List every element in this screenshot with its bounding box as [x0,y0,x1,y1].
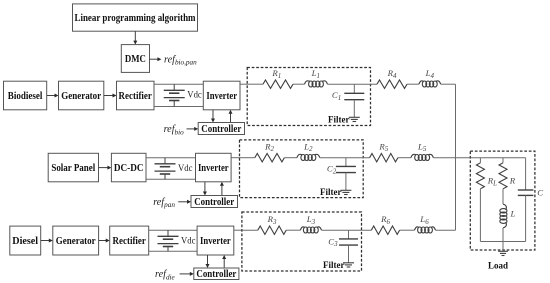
svg-text:Rectifier: Rectifier [119,90,153,102]
filter box 2 (dashed) [240,140,364,198]
wire: L5 to load (through bus node) [433,157,470,159]
inductor L3 [300,227,321,233]
svg-text:Load: Load [488,261,509,271]
resistor R1 [263,80,293,88]
filter box 1 (dashed) [247,68,370,126]
label: ref_bio,pan [164,54,197,66]
block: Linear programming algorithm [73,4,198,31]
label: ref_bio [164,124,185,136]
svg-text:R: R [509,176,516,186]
wire: load bottom rail [480,241,525,243]
label: C (load) [537,187,543,197]
capacitor C3 [339,230,358,263]
inductor L4 [419,81,441,87]
wire: Generator to Rectifier (arrow) [104,94,117,98]
wire: ref_pan to Controller (arrow) [178,200,191,204]
wire: R_L branch top [479,158,481,163]
ground (filter 2) [340,190,351,194]
resistor R5 [370,154,398,162]
wire: R_L branch bottom [479,189,481,242]
label: R_L [487,176,497,188]
wire: LP algorithm to DMC (arrow down) [133,31,137,44]
svg-text:Controller: Controller [194,197,234,208]
svg-text:Vdc: Vdc [187,89,202,100]
wire: Diesel to Generator (arrow) [41,239,53,243]
block U: DMC [121,45,149,73]
block: Controller (row 2) [191,196,238,208]
inductor L6 [415,227,436,233]
svg-text:Inverter: Inverter [198,162,229,174]
block: Generator (row 3) [53,226,99,255]
label: C3 [328,236,338,248]
svg-text:Linear programming algorithm: Linear programming algorithm [75,12,196,24]
label: C1 [332,90,341,102]
capacitor C (load) [518,158,534,242]
svg-text:Filter: Filter [320,188,342,198]
block: DC-DC [111,153,146,182]
label: Vdc (row 2) [178,163,193,174]
wire: Biodiesel to Generator (arrow) [47,94,59,98]
inductor L2 [297,154,320,160]
inductor L (load) [500,204,507,228]
wire: DC-DC to Inverter top (row 2) [146,157,196,159]
svg-text:Rectifier: Rectifier [113,235,147,247]
svg-text:Vdc: Vdc [181,235,196,246]
wire: R4 to L4 [407,83,419,85]
block: Inverter (row 1) [203,81,240,110]
resistor R4 [377,80,407,88]
ground (load) [498,251,508,255]
resistor R2 [255,154,285,162]
battery Vdc (row 2) [155,158,176,180]
wire: Rectifier to Inverter bottom (row 1) [154,106,203,108]
wire: Inverter to filter 3 [234,229,242,231]
svg-text:Inverter: Inverter [206,90,237,102]
block: Rectifier (row 1) [117,81,155,110]
svg-text:Biodiesel: Biodiesel [8,90,43,102]
label: Vdc (row 3) [181,235,196,246]
label: C2 [327,164,337,176]
inductor L1 [305,81,328,87]
wire: Generator to Rectifier (arrow, row 3) [99,239,110,243]
load box (dashed) [470,151,535,250]
wire: R5 to L5 [398,157,411,159]
block: Solar Panel [48,153,98,182]
wire: Rectifier to Inverter bottom (row 3) [149,250,197,252]
svg-text:Filter: Filter [323,261,345,271]
label: L4 [425,68,435,80]
wire: R branch top [502,158,504,163]
block: Inverter (row 2) [196,153,232,182]
wire: Solar Panel to DC-DC (arrow) [99,166,112,170]
wire: Controller to Inverter (row 1, up arrow) [229,110,233,123]
block: Biodiesel [4,81,47,110]
wire: DC-DC to Inverter bottom (row 2) [146,178,196,180]
label: ref_pan [153,197,175,209]
wire: ref_bio to Controller (arrow) [187,127,199,131]
wire: L6 to bus [436,229,456,231]
svg-text:C: C [537,187,543,197]
battery Vdc (row 1) [164,84,185,106]
wire: ground stem (load) [502,242,504,252]
wire: R3 to L3 [286,229,300,231]
wire: ref_die to Controller (arrow) [180,272,194,276]
wire: AC bus (vertical) [455,84,457,230]
wire: Inverter to filter 1 [240,83,247,85]
label: L3 [306,214,316,226]
wire: Controller to Inverter (row 2, up arrow) [220,182,224,196]
inductor L5 [411,154,434,160]
svg-text:Solar Panel: Solar Panel [51,162,95,174]
wire: R1 to L1 [293,83,305,85]
label: R6 [380,214,390,226]
svg-text:DC-DC: DC-DC [114,162,144,174]
label: Vdc (row 1) [187,89,202,100]
label: R2 [264,141,274,153]
svg-text:L: L [510,209,516,219]
label: R3 [267,214,277,226]
resistor R6 [371,226,399,234]
label: L5 [417,141,427,153]
label: R (load) [509,176,516,186]
svg-text:Diesel: Diesel [12,235,38,247]
wire: L3 to R6 (node with C3) [322,229,372,231]
label: ref_die [155,269,176,281]
block: Rectifier (row 3) [110,226,149,255]
wire: L branch bottom [502,228,504,242]
svg-text:Controller: Controller [196,269,236,280]
label: R4 [387,68,397,80]
wire: R6 to L6 [400,229,415,231]
wire: Rectifier to Inverter top (row 3) [149,229,197,231]
block: Inverter (row 3) [197,226,234,255]
resistor R (load) [499,163,507,189]
svg-text:DMC: DMC [125,54,146,65]
svg-text:Controller: Controller [201,124,241,135]
wire: Inverter to Controller (row 1, down arrow) [211,110,215,123]
capacitor C1 [344,84,364,117]
label: L6 [419,214,429,226]
block: Controller (row 1) [198,123,244,135]
battery Vdc (row 3) [158,230,179,251]
wire: Inverter to filter 2 [231,157,239,159]
label: R5 [378,141,388,153]
wire: load top rail [470,157,525,159]
svg-text:Vdc: Vdc [178,163,193,174]
wire: filter 1 input [247,83,263,85]
resistor R_L [476,163,484,189]
wire: Rectifier to Inverter top (row 1) [154,83,203,85]
block: Controller (row 3) [194,268,239,280]
svg-text:Inverter: Inverter [200,235,231,247]
label: R1 [271,68,281,80]
label: L1 [311,68,320,80]
svg-text:Filter: Filter [328,116,350,126]
block: Diesel [10,226,41,255]
wire: R2 to L2 [284,157,297,159]
wire: L4 to bus [441,83,456,85]
ground (filter 1) [349,117,360,121]
wire: L2 to R5 (node with C2) [320,157,370,159]
block: Generator (row 1) [59,81,104,110]
wire: R to L (load) [502,189,504,204]
label: L (load) [510,209,516,219]
wire: Inverter to Controller (row 3, down arrow) [206,255,210,268]
filter box 3 (dashed) [242,212,362,271]
label: Filter (3) [323,261,345,271]
label: Load [488,261,509,271]
wire: L1 to R4 (through filter edge, node with C1) [328,83,378,85]
resistor R3 [258,226,286,234]
wire: filter 3 input [242,229,258,231]
svg-text:Generator: Generator [56,235,96,247]
capacitor C2 [336,158,356,191]
label: Filter (1) [328,116,350,126]
wire: DMC output arrow [150,57,162,61]
svg-text:Generator: Generator [61,90,101,102]
ground (filter 3) [343,263,354,267]
label: Filter (2) [320,188,342,198]
wire: Controller to Inverter (row 3, up arrow) [222,255,226,268]
wire: filter 2 input [240,157,255,159]
wire: Inverter to Controller (row 2, down arrow) [203,182,207,196]
label: L2 [303,141,313,153]
